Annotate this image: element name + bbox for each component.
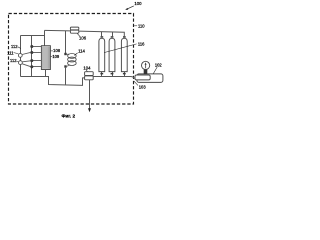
contact 112 d — [30, 65, 33, 68]
svg-text:108: 108 — [53, 48, 61, 53]
gauge base — [144, 70, 148, 75]
wire block bottom stub — [45, 70, 47, 77]
svg-text:114: 114 — [78, 49, 85, 54]
tube 116 #1 — [99, 38, 105, 71]
coil branch wire — [65, 31, 67, 53]
dashed enclosure 110 (system boundary) — [9, 14, 134, 105]
svg-text:103: 103 — [139, 85, 147, 90]
wire contact c to block — [32, 60, 42, 62]
wire switch top bus — [21, 35, 45, 37]
tube2 bottom terminal — [112, 72, 114, 77]
wire tube bottom bus — [95, 77, 135, 79]
wire coil to bottom bus — [65, 68, 67, 85]
tube3 cap — [123, 36, 126, 38]
svg-text:116: 116 — [138, 41, 145, 46]
switch lever lower — [22, 64, 31, 67]
tube1 bottom terminal — [101, 72, 103, 77]
tube2 cap — [111, 36, 114, 38]
tube 116 #2 — [109, 38, 115, 71]
svg-text:110: 110 — [138, 23, 145, 28]
contact 112 c — [30, 59, 33, 62]
tube1 cap — [101, 36, 104, 38]
svg-text:112: 112 — [10, 58, 17, 63]
tank 102 — [137, 74, 163, 83]
leader 109 — [51, 56, 53, 58]
label 110 — [134, 25, 137, 27]
svg-text:100: 100 — [134, 1, 142, 6]
switch pole 111 upper — [18, 54, 22, 58]
svg-text:111: 111 — [7, 50, 14, 55]
coil 114 — [68, 54, 77, 59]
wire left rail — [20, 36, 22, 77]
component 106 (fuse box) — [70, 27, 78, 33]
outlet arrow wire — [89, 80, 91, 110]
wire tube1 top stub — [101, 32, 103, 36]
wire riser to block 108 — [44, 30, 46, 45]
leader arrow to enclosure 100 — [127, 6, 134, 9]
gauge arrow — [145, 64, 147, 69]
wire contact a to block — [32, 46, 42, 48]
gauge circle — [142, 61, 150, 69]
leader 116 — [104, 44, 137, 53]
wire pole lower to contact c — [22, 61, 30, 62]
svg-text:104: 104 — [83, 65, 91, 70]
wire top bus right segment — [79, 31, 125, 36]
tube3 bottom terminal — [124, 72, 126, 77]
component 104 (valve box) — [85, 72, 94, 80]
outlet arrowhead — [88, 108, 91, 112]
wire bottom left bus — [21, 77, 85, 86]
switch lever upper — [22, 52, 31, 54]
wire contact d to block — [32, 66, 42, 68]
wire contact b to block — [32, 52, 42, 54]
electrode block 108/109 — [41, 46, 50, 70]
wire tube2 top stub — [112, 32, 114, 36]
tube 116 #3 — [121, 38, 127, 71]
svg-text:102: 102 — [155, 62, 163, 67]
wire 104 to tube bus — [93, 76, 95, 78]
contact 112 b — [30, 51, 33, 54]
inner vessel 103 — [135, 75, 150, 80]
wire top bus left segment — [45, 29, 71, 32]
contact 112 a — [30, 45, 33, 48]
coil terminal lower — [64, 65, 66, 67]
leader 108 — [51, 50, 53, 52]
coil terminal upper — [64, 53, 66, 55]
svg-text:Фиг. 2: Фиг. 2 — [62, 113, 76, 118]
svg-text:106: 106 — [79, 35, 87, 40]
svg-text:109: 109 — [52, 54, 60, 59]
leader 106 — [77, 33, 80, 36]
switch pole 111 lower — [19, 61, 23, 65]
wire contact rail — [31, 36, 33, 77]
svg-text:112: 112 — [11, 44, 18, 49]
